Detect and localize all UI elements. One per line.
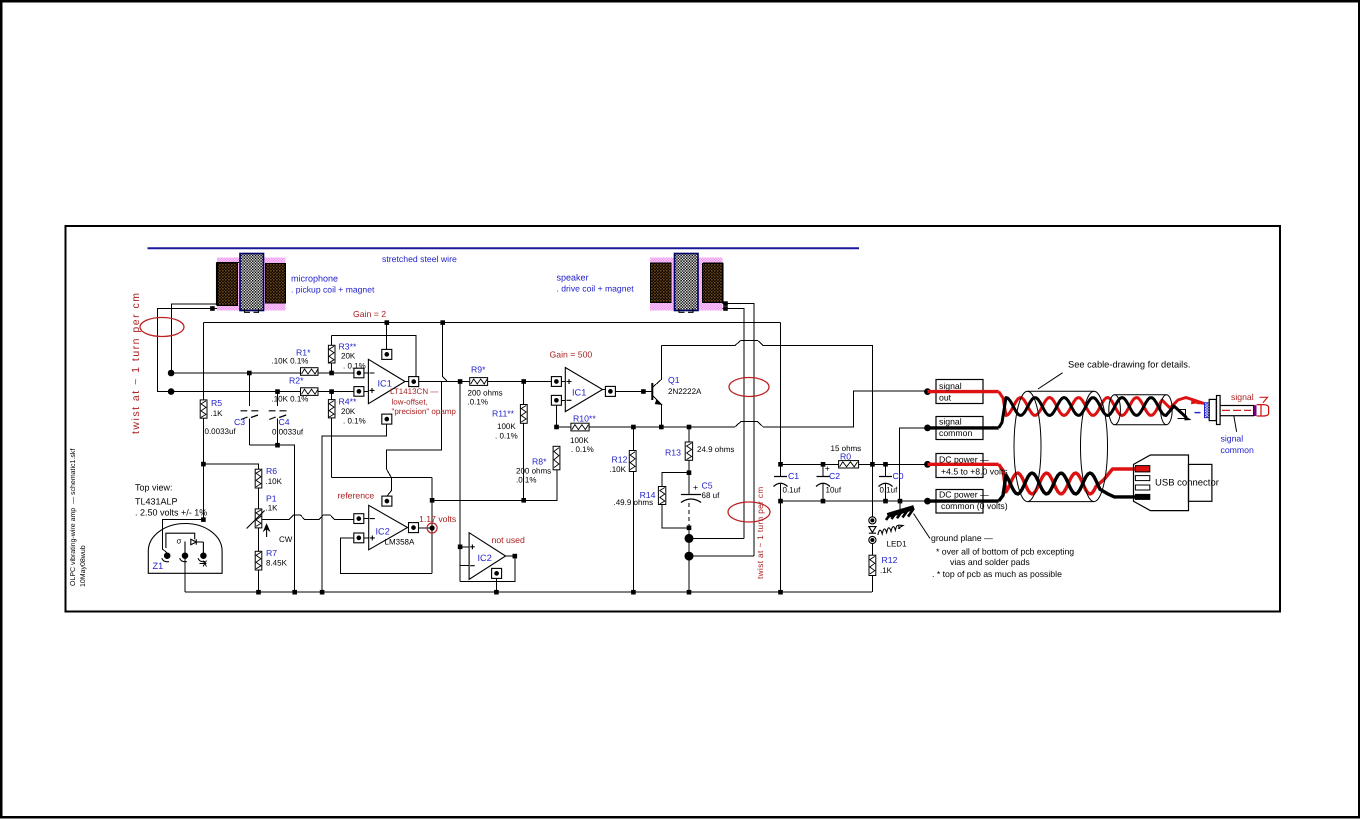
svg-text:0.0033uf: 0.0033uf: [205, 427, 237, 436]
resistor R11: [520, 405, 527, 424]
svg-text:R10**: R10**: [573, 414, 596, 424]
node DC power terminal: [924, 461, 931, 468]
resistor R0: [839, 461, 859, 468]
node ground rail speaker: [687, 590, 692, 595]
wire C2 column: [822, 464, 824, 501]
svg-text:signal: signal: [1231, 392, 1254, 402]
svg-text:common (0 volts): common (0 volts): [941, 501, 1008, 511]
svg-text:.10K 0.1%: .10K 0.1%: [272, 357, 309, 366]
audio plug body: [1209, 399, 1216, 420]
node IC2b plus input: [458, 545, 463, 550]
svg-text:twist at ~ 1 turn per cm: twist at ~ 1 turn per cm: [756, 486, 765, 579]
connector label boxes: [936, 380, 983, 514]
wire V+ to C1 column: [780, 323, 782, 593]
svg-text:.49.9 ohms: .49.9 ohms: [614, 498, 654, 507]
svg-text:σ: σ: [177, 537, 182, 546]
svg-text:2N2222A: 2N2222A: [668, 387, 702, 396]
svg-text:Z1: Z1: [153, 561, 164, 571]
wire ground stub: [899, 501, 901, 509]
node DC rail C1: [778, 462, 783, 467]
svg-text:1.17 volts: 1.17 volts: [419, 514, 457, 524]
svg-text:.0.1%: .0.1%: [468, 398, 488, 407]
wire speaker lead B: [706, 304, 754, 556]
TL431 Z1 package: [148, 524, 222, 574]
wire R7-ground rail: [258, 570, 260, 592]
svg-text:C2: C2: [829, 471, 840, 481]
svg-text:* over all of bottom of pcb ex: * over all of bottom of pcb excepting: [936, 547, 1074, 557]
capacitor C2: [816, 477, 830, 487]
wire IC2b plus stub: [460, 546, 469, 548]
resistor R12 10K: [629, 451, 636, 472]
twisted pair power red: [999, 464, 1148, 494]
wire 460 vertical to IC2 unused: [459, 382, 461, 582]
node ground rail R7: [256, 590, 261, 595]
svg-text:.10K 0.1%: .10K 0.1%: [272, 395, 309, 404]
svg-text:R5: R5: [211, 398, 222, 408]
svg-text:stretched steel wire: stretched steel wire: [382, 254, 457, 264]
signal jacket ellipse 1: [1109, 395, 1121, 425]
signal jacket ellipse 2: [1161, 395, 1173, 425]
node speaker terminal A: [685, 534, 694, 543]
wire R3 column: [331, 336, 333, 373]
svg-text:R9*: R9*: [471, 365, 486, 375]
svg-text:microphone: microphone: [291, 274, 338, 284]
potentiometer P1: [247, 509, 270, 537]
ground rail: [185, 591, 872, 593]
svg-text:R2*: R2*: [289, 376, 304, 386]
red circle 1.17V node: [427, 523, 437, 533]
node R14 C5 bottom: [687, 526, 692, 531]
resistor R8: [553, 446, 560, 470]
node C3 C4 join: [275, 443, 280, 448]
wire C4 drop: [277, 392, 279, 446]
svg-text:R7: R7: [266, 548, 277, 558]
svg-text:USB connector: USB connector: [1155, 478, 1219, 489]
node common rail C0: [883, 499, 888, 504]
leader signal common: [1234, 416, 1237, 432]
wire IC1b inverting input: [556, 405, 558, 427]
op-amp IC1 stage1: [368, 359, 405, 403]
svg-text:signal: signal: [939, 381, 962, 391]
svg-text:speaker: speaker: [557, 273, 589, 283]
node mic terminal A: [168, 370, 175, 377]
wire IC2b out loop: [460, 556, 515, 582]
wire R14 branch: [662, 473, 689, 528]
svg-text:8.45K: 8.45K: [266, 559, 288, 568]
svg-text:LED1: LED1: [887, 540, 908, 549]
svg-text:R6: R6: [266, 466, 277, 476]
svg-text:10May08wub: 10May08wub: [79, 545, 87, 587]
wire 2.5V node to R6: [203, 464, 258, 469]
steel wire line: [148, 247, 860, 249]
svg-text:100K: 100K: [497, 422, 516, 431]
svg-text:R8*: R8*: [532, 457, 547, 467]
svg-text:Q1: Q1: [668, 375, 680, 385]
svg-text:C3: C3: [234, 417, 245, 427]
node Q1 emitter: [659, 425, 664, 430]
svg-text:vias and solder pads: vias and solder pads: [950, 557, 1030, 567]
svg-text:R4**: R4**: [339, 397, 357, 407]
plug insulator ring: [1254, 405, 1257, 416]
wire speaker big dot B: [689, 555, 754, 557]
signal jacket lines: [1115, 395, 1167, 425]
wire DC common black thick: [928, 499, 999, 502]
wire emitter rail with hop: [557, 391, 928, 427]
wire IC1 V+ pin: [386, 323, 388, 350]
svg-text:low-offset,: low-offset,: [392, 398, 428, 407]
node DC common terminal: [924, 498, 931, 505]
svg-text:IC1: IC1: [378, 379, 392, 389]
svg-text:IC2: IC2: [478, 553, 492, 563]
twisted pair power black: [999, 473, 1136, 501]
op-amp IC2 not used: [469, 533, 506, 580]
svg-text:reference: reference: [338, 491, 375, 501]
wire V+ drop to IC2: [387, 382, 442, 496]
node speaker terminal B: [685, 552, 694, 561]
svg-text:R11**: R11**: [492, 409, 515, 419]
svg-text:0.1uf: 0.1uf: [880, 486, 899, 495]
svg-text:C5: C5: [702, 481, 713, 491]
CABLE SECTION: [928, 373, 1269, 511]
wire C5 node to ground: [688, 526, 690, 592]
node V+ rail at IC1 pin: [385, 320, 390, 325]
svg-text:TL431ALP: TL431ALP: [135, 497, 178, 507]
svg-text:Top view:: Top view:: [135, 483, 173, 493]
blue dash sleeve mark: [1195, 412, 1201, 414]
svg-text:R0: R0: [840, 452, 851, 462]
node ground rail IC1: [320, 590, 325, 595]
svg-text:20K: 20K: [341, 352, 356, 361]
wire V+ rail: [203, 322, 780, 324]
wire P1-R7: [258, 528, 260, 551]
resistor R3: [328, 345, 335, 363]
wire DC plus rail: [781, 463, 928, 465]
red ellipse speaker pair upper: [729, 378, 769, 397]
svg-text:"precision" opamp: "precision" opamp: [392, 407, 457, 416]
USB connector body: [1134, 455, 1189, 511]
node R13 top: [687, 425, 692, 430]
wire input stubs op-amps: [364, 373, 606, 538]
node stage2 input tap: [458, 379, 463, 384]
node R11 bottom: [521, 498, 526, 503]
node mic pin: [210, 306, 215, 311]
wire R13 column: [688, 427, 690, 494]
svg-text:. 0.1%: . 0.1%: [571, 445, 594, 454]
USB pad 1 red: [1135, 466, 1149, 472]
node ground rail R12: [631, 590, 636, 595]
svg-text:24.9 ohms: 24.9 ohms: [697, 445, 734, 454]
node V+ rail drop to IC2: [440, 320, 445, 325]
svg-text:10uf: 10uf: [826, 486, 842, 495]
plug tip: [1257, 405, 1269, 416]
red arrow at plug tip wire: [1191, 399, 1198, 404]
capacitor C4: [269, 406, 287, 420]
wire R12a column: [632, 427, 634, 592]
op-amp IC1 stage2: [565, 368, 602, 412]
wire IC2b minus stub: [460, 565, 469, 567]
svg-text:+4.5 to +8.0 volts: +4.5 to +8.0 volts: [941, 467, 1008, 477]
svg-text:signal: signal: [1221, 434, 1244, 444]
pin box IC2 not used: [492, 568, 502, 578]
wire IC2 feedback: [340, 538, 432, 574]
node Q1 base: [641, 389, 646, 394]
transistor Q1: [652, 383, 661, 404]
svg-text:LM358A: LM358A: [385, 538, 415, 547]
node R3 bottom: [329, 371, 334, 376]
svg-text:C1: C1: [788, 471, 799, 481]
svg-text:out: out: [939, 393, 952, 403]
wire signal common black thick: [928, 426, 999, 429]
USB pad 2: [1135, 476, 1149, 481]
wire stage1 out to stage2: [419, 381, 552, 383]
USB pad 4 black: [1135, 494, 1149, 499]
svg-text:+: +: [693, 483, 698, 493]
wire signal common L: [900, 428, 928, 501]
LED1: [869, 517, 903, 544]
node DC rail C0: [883, 462, 888, 467]
wire speaker lead A: [698, 308, 744, 538]
node signal common terminal: [924, 425, 931, 432]
node 2.5V R6: [201, 462, 206, 467]
wire collector loop with hop: [661, 340, 872, 464]
node speaker pin A: [723, 301, 728, 306]
wire Q1 emitter: [652, 396, 661, 428]
resistor R4: [328, 400, 335, 418]
red leader signal tip: [1260, 397, 1268, 403]
cable jacket top and bottom lines: [1028, 391, 1095, 501]
svg-text:ground plane —: ground plane —: [931, 533, 993, 543]
svg-text:See cable-drawing for details.: See cable-drawing for details.: [1068, 360, 1190, 370]
resistor R13: [685, 442, 692, 460]
resistor R14: [658, 487, 665, 505]
red dashes in shaft: [1222, 409, 1251, 411]
svg-text:200 ohms: 200 ohms: [468, 389, 503, 398]
svg-text:DC power —: DC power —: [939, 455, 989, 465]
resistor R10: [571, 423, 589, 431]
wire IC1b out to Q1 base: [615, 391, 652, 393]
node 1.17V reference: [430, 498, 435, 503]
wire C3 C4 to ground column: [249, 445, 294, 592]
svg-text:. 0.1%: . 0.1%: [343, 362, 366, 371]
svg-text:Gain = 2: Gain = 2: [353, 309, 386, 319]
svg-text:20K: 20K: [341, 407, 356, 416]
node signal out terminal: [924, 388, 931, 395]
wire mic lead A: [172, 304, 225, 373]
node mic terminal B: [168, 388, 175, 395]
leader see cable text: [1038, 373, 1063, 389]
wire V+ drop hop: [443, 323, 447, 381]
wire C0 column: [885, 464, 887, 501]
schematic frame: [66, 226, 1281, 612]
svg-text:0.0033uf: 0.0033uf: [272, 428, 304, 437]
node ground rail C1: [778, 590, 783, 595]
svg-text:+: +: [825, 464, 830, 474]
cable jacket ellipse 1: [1014, 391, 1041, 501]
audio plug shaft: [1220, 406, 1254, 416]
svg-text:R12: R12: [612, 455, 628, 465]
node R12 top: [631, 425, 636, 430]
svg-text:.0.1%: .0.1%: [516, 476, 536, 485]
pin boxes IC1 stage2: [551, 377, 615, 406]
wire Z1 cathode: [163, 520, 204, 554]
microphone coil: [217, 254, 286, 313]
pin boxes IC2 reference: [354, 496, 419, 543]
audio plug collar hatched: [1205, 403, 1212, 418]
svg-text:C0: C0: [893, 471, 904, 481]
svg-text:R3**: R3**: [339, 342, 357, 352]
svg-text:R13: R13: [665, 448, 681, 458]
resistor R1: [301, 368, 319, 376]
svg-text:. drive coil + magnet: . drive coil + magnet: [557, 284, 635, 294]
wire DC common rail: [781, 500, 928, 502]
twisted pair signal red: [999, 392, 1204, 416]
wire R5 column: [202, 323, 204, 520]
svg-text:. * top of pcb as much as poss: . * top of pcb as much as possible: [932, 569, 1062, 579]
svg-text:IC2: IC2: [376, 527, 390, 537]
svg-text:Gain = 500: Gain = 500: [550, 350, 593, 360]
svg-text:68 uf: 68 uf: [702, 491, 721, 500]
svg-text:signal: signal: [939, 417, 962, 427]
svg-text:200 ohms: 200 ohms: [516, 467, 551, 476]
node R4 top: [329, 389, 334, 394]
node R10 left R8 top: [554, 425, 559, 430]
wire IC2 out: [419, 527, 432, 529]
svg-text:P1: P1: [266, 494, 277, 504]
svg-text:OLPC vibrating-wire amp — sch: OLPC vibrating-wire amp — schematic1.skf: [69, 449, 77, 586]
node R11 top: [521, 379, 526, 384]
capacitor C3: [241, 406, 259, 420]
wire C3 drop: [248, 373, 250, 445]
wire feedback loop IC1: [332, 336, 416, 377]
svg-text:DC power —: DC power —: [939, 490, 989, 500]
node Z1 cathode: [201, 517, 206, 522]
node IC2b output: [513, 554, 518, 559]
node common rail C1: [778, 499, 783, 504]
resistor R5: [200, 400, 207, 418]
wire Q1 collector: [652, 346, 661, 388]
svg-text:CW: CW: [279, 535, 293, 544]
wire IC2b pin to rail: [495, 578, 497, 592]
twisted pair signal black: [999, 398, 1187, 428]
node ground rail IC2b: [494, 590, 499, 595]
USB connector tab: [1189, 464, 1212, 501]
red ellipse mic pair: [140, 318, 184, 337]
node R13 R14 C5: [687, 470, 692, 475]
wire R4 column: [331, 392, 333, 478]
leader ground text: [914, 514, 931, 539]
wire speaker big dot A: [689, 537, 744, 539]
svg-text:LT1413CN —: LT1413CN —: [390, 387, 438, 396]
node C3 tap: [247, 371, 252, 376]
svg-text:15 ohms: 15 ohms: [831, 444, 862, 453]
node DC rail LED column: [870, 462, 875, 467]
pin boxes IC1 stage1: [354, 349, 419, 424]
svg-text:not used: not used: [492, 535, 525, 545]
node speaker pin B: [723, 306, 728, 311]
resistor R6: [255, 469, 262, 488]
resistor R7: [255, 551, 262, 570]
resistor R2: [301, 388, 319, 396]
cable jacket ellipse 2: [1081, 391, 1108, 501]
svg-text:. 2.50 volts +/- 1%: . 2.50 volts +/- 1%: [135, 508, 207, 518]
wire 1.17V to R11 R8 bottoms: [432, 446, 557, 500]
svg-text:0.1uf: 0.1uf: [783, 486, 802, 495]
node ground rail C3C4: [292, 590, 297, 595]
svg-text:twist at ~ 1 turn per cm: twist at ~ 1 turn per cm: [130, 292, 142, 435]
svg-text:100K: 100K: [570, 436, 589, 445]
resistor R9: [470, 378, 488, 386]
svg-text:R12: R12: [882, 555, 898, 565]
wire mic lead B: [157, 309, 232, 392]
wire mic+ to R1 to IC1: [171, 372, 354, 374]
resistor R12 1K: [869, 555, 876, 575]
node common rail C2: [821, 499, 826, 504]
wire 1.17V vertical: [431, 477, 433, 573]
svg-text:. 0.1%: . 0.1%: [343, 417, 366, 426]
wire LED column: [871, 464, 873, 592]
svg-text:.10K: .10K: [266, 477, 283, 486]
WIRES_BLACK: [157, 304, 927, 593]
wire R6-P1: [258, 488, 260, 509]
red ellipse speaker pair lower: [728, 502, 770, 522]
node DC rail C2: [821, 462, 826, 467]
wire Z1 anode middle pin to rail: [184, 556, 186, 593]
wire C5 bottom dashes: [688, 503, 690, 526]
svg-text:. 0.1%: . 0.1%: [495, 432, 518, 441]
svg-text:common: common: [1221, 445, 1254, 455]
node C4 tap: [275, 389, 280, 394]
svg-text:.1K: .1K: [211, 409, 224, 418]
red wire into pad1: [1136, 467, 1147, 470]
svg-text:.10K: .10K: [610, 465, 627, 474]
wire P1 wiper to IC2 with hops: [261, 515, 353, 520]
wire signal out red thick: [928, 390, 999, 393]
op-amp IC2 reference: [369, 505, 408, 550]
USB pad 3: [1135, 485, 1149, 490]
svg-text:. pickup coil + magnet: . pickup coil + magnet: [291, 285, 375, 295]
capacitor C5: [681, 495, 701, 503]
ground plane symbol: [886, 508, 914, 521]
svg-text:.1K: .1K: [880, 566, 893, 575]
capacitor C1: [774, 477, 788, 487]
wire mic- to R2 to IC1: [171, 391, 354, 393]
svg-text:C4: C4: [279, 417, 290, 427]
title text vertical: [69, 449, 87, 587]
wire R4 to 1.17V node: [332, 476, 433, 478]
wire DC power red thick: [928, 463, 999, 466]
black arrow at plug sleeve: [1184, 415, 1192, 420]
speaker coil: [650, 254, 723, 313]
wire IC1 V- pin to ground: [322, 424, 387, 592]
node common rail ground: [898, 499, 903, 504]
wire R11 column: [523, 382, 525, 501]
svg-text:IC1: IC1: [572, 388, 586, 398]
svg-text:.1K: .1K: [266, 504, 279, 513]
capacitor C0: [879, 477, 893, 487]
audio plug flange: [1217, 396, 1221, 425]
svg-text:common: common: [939, 428, 972, 438]
